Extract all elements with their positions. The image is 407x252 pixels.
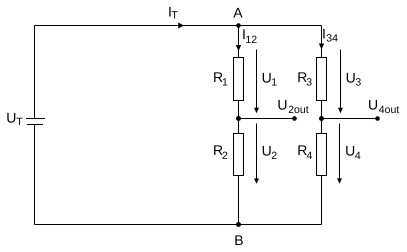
svg-text:2out: 2out — [288, 104, 309, 116]
svg-text:2: 2 — [222, 150, 228, 162]
svg-text:4out: 4out — [379, 104, 400, 116]
svg-text:I: I — [322, 26, 326, 42]
svg-text:4: 4 — [355, 150, 361, 162]
svg-text:1: 1 — [271, 77, 277, 89]
svg-text:2: 2 — [271, 150, 277, 162]
svg-text:3: 3 — [355, 77, 361, 89]
svg-text:T: T — [171, 10, 178, 22]
svg-text:T: T — [16, 116, 23, 128]
svg-text:4: 4 — [307, 150, 313, 162]
svg-text:A: A — [233, 4, 243, 20]
svg-text:U: U — [368, 96, 378, 112]
svg-text:1: 1 — [222, 77, 228, 89]
svg-text:B: B — [234, 232, 243, 248]
svg-text:U: U — [345, 142, 355, 158]
svg-text:12: 12 — [245, 34, 257, 46]
svg-text:3: 3 — [306, 77, 312, 89]
svg-text:34: 34 — [326, 33, 338, 45]
svg-text:U: U — [6, 109, 16, 125]
svg-text:U: U — [346, 70, 356, 86]
svg-text:U: U — [277, 96, 287, 112]
